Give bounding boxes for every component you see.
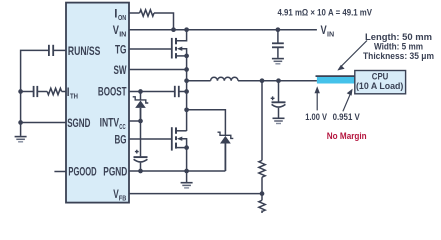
svg-text:PGOOD: PGOOD <box>68 165 96 179</box>
diode D2 boost schottky <box>133 92 149 122</box>
svg-text:0.951 V: 0.951 V <box>333 111 361 122</box>
svg-text:RUN/SS: RUN/SS <box>68 44 101 58</box>
transistor Q2 bottom NMOS <box>172 127 187 150</box>
node Q2 source/body <box>184 145 189 150</box>
capacitor CITH <box>36 86 38 97</box>
wire INTVCC pin <box>129 120 141 122</box>
ground CIN <box>272 59 284 64</box>
wire Q1 source to SW rail <box>186 56 188 131</box>
capacitor CIN <box>277 30 279 44</box>
wire VIN rail <box>129 29 317 31</box>
svg-text:4.91 mΩ × 10 A = 49.1 mV: 4.91 mΩ × 10 A = 49.1 mV <box>278 8 373 19</box>
svg-text:No Margin: No Margin <box>327 131 367 142</box>
IC U1 body <box>66 3 129 203</box>
node boost cap / rail <box>184 89 189 94</box>
wire ION to VIN <box>154 13 174 30</box>
node VFB divider <box>260 191 265 196</box>
wire ITH pin <box>62 91 66 93</box>
svg-text:ON: ON <box>118 13 126 22</box>
node BOOST/diode <box>138 89 143 94</box>
node output/COUT <box>276 78 281 83</box>
svg-text:TH: TH <box>70 91 78 100</box>
svg-text:BG: BG <box>115 132 127 146</box>
node VIN/CIN <box>276 27 281 32</box>
svg-text:CPU: CPU <box>372 72 389 82</box>
wire VFB pin <box>129 193 262 195</box>
arrow 1.00 V <box>315 86 320 110</box>
node rail / D1 branch <box>184 107 189 112</box>
wire SW pin <box>129 69 187 71</box>
svg-text:SGND: SGND <box>67 116 90 130</box>
svg-text:PGND: PGND <box>103 164 127 178</box>
capacitor CB boost <box>174 86 176 97</box>
node output/R1 <box>260 78 265 83</box>
resistor R2 feedback bottom <box>259 200 265 213</box>
wire D1 branch <box>187 110 226 135</box>
svg-text:IN: IN <box>119 29 126 38</box>
wire R1 to output <box>261 81 263 161</box>
capacitor CVCC polarized <box>134 121 148 171</box>
ground COUT <box>273 118 285 123</box>
wire ITH to SGND <box>20 92 22 123</box>
wire inductor branch <box>187 80 211 82</box>
PCB trace copper <box>317 77 355 84</box>
wire Q2 source to PGND <box>186 148 188 171</box>
svg-text:Thickness: 35 μm: Thickness: 35 μm <box>363 50 434 61</box>
diode D1 catch schottky <box>218 132 234 171</box>
resistor R1 feedback top <box>259 160 265 177</box>
transistor Q1 top NMOS <box>172 31 187 59</box>
wire PGOOD stub <box>54 171 66 173</box>
wire SGND pin <box>21 122 66 124</box>
arrow trace annotation <box>337 41 367 71</box>
node PGND/Q2 <box>184 169 189 174</box>
svg-text:BOOST: BOOST <box>98 85 127 99</box>
wire BG gate <box>129 138 171 140</box>
svg-text:CC: CC <box>119 122 126 131</box>
svg-text:FB: FB <box>119 194 127 203</box>
svg-text:INTV: INTV <box>100 116 120 130</box>
capacitor COUT polarized <box>271 81 286 118</box>
wire BOOST pin <box>129 91 175 93</box>
wire R1 to VFB node <box>261 177 263 200</box>
wire RUN/SS <box>53 49 66 51</box>
ground SGND <box>15 123 27 142</box>
arrow 0.951 V <box>343 89 353 112</box>
resistor RON <box>140 10 154 16</box>
svg-text:1.00 V: 1.00 V <box>305 111 327 122</box>
node SGND <box>18 120 23 125</box>
node ITH <box>18 89 23 94</box>
CPU box <box>355 71 406 94</box>
node rail / inductor branch <box>184 78 189 83</box>
svg-text:SW: SW <box>114 63 127 77</box>
wire PGND pin <box>129 170 225 172</box>
node ION/VIN junction <box>171 27 176 32</box>
capacitor CSS <box>52 45 54 56</box>
node VIN/Q1 drain <box>184 27 189 32</box>
node Q1 source/body <box>184 54 189 59</box>
resistor RITH <box>47 88 61 94</box>
inductor L1 <box>211 77 238 80</box>
ground PGND <box>181 171 193 188</box>
node INTVCC <box>138 119 143 124</box>
svg-text:(10 A Load): (10 A Load) <box>356 81 403 91</box>
wire TG gate <box>129 48 171 50</box>
wire output <box>238 80 317 82</box>
wire RITH to CITH <box>37 91 47 93</box>
PCB trace top outline <box>316 75 355 77</box>
node PGND/CVCC <box>138 169 143 174</box>
node SW <box>184 67 189 72</box>
svg-text:I: I <box>114 6 117 20</box>
svg-text:TG: TG <box>115 42 127 56</box>
svg-text:IN: IN <box>327 29 334 38</box>
wire ION pin <box>129 12 140 14</box>
